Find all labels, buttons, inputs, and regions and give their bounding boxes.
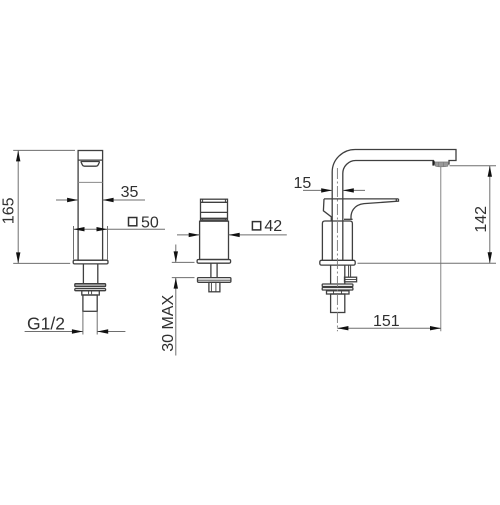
svg-text:15: 15 <box>294 175 312 192</box>
base plate <box>73 260 108 264</box>
washer <box>198 278 231 283</box>
locknut <box>82 291 100 295</box>
shank <box>82 264 84 284</box>
dimension 165 <box>13 150 75 263</box>
svg-text:35: 35 <box>121 184 139 201</box>
base plate <box>320 260 355 265</box>
dimension square-42 <box>177 234 287 236</box>
svg-text:30 MAX: 30 MAX <box>160 295 177 352</box>
svg-text:G1/2: G1/2 <box>27 313 65 333</box>
dimension 142 <box>358 166 497 263</box>
outlet centerline / extension <box>440 167 442 331</box>
svg-text:151: 151 <box>373 313 400 330</box>
svg-text:50: 50 <box>141 215 159 232</box>
cartridge collar <box>344 218 353 220</box>
threaded tail G1/2 <box>83 295 97 311</box>
base plate <box>197 260 231 264</box>
stud nut <box>345 277 357 282</box>
spout inner curve / underside <box>343 161 434 174</box>
handle notch <box>81 162 99 167</box>
threaded tail <box>209 282 220 292</box>
aerator <box>435 162 449 167</box>
washer 2 <box>322 288 353 291</box>
handle <box>201 199 228 220</box>
dimension 151 <box>337 327 441 329</box>
tap body <box>78 151 103 261</box>
dimension 30 MAX <box>172 245 195 356</box>
locknut <box>327 291 350 294</box>
svg-text:142: 142 <box>473 206 490 233</box>
svg-text:165: 165 <box>1 197 18 224</box>
faucet centerline <box>336 168 338 331</box>
riser pipe edges <box>331 172 333 260</box>
fixing stud <box>348 265 350 277</box>
body <box>200 221 229 259</box>
dimension G1/2 <box>25 311 126 334</box>
washer 1 <box>75 284 106 287</box>
top cap line <box>78 159 103 161</box>
svg-text:42: 42 <box>264 218 282 235</box>
washer 2 <box>75 289 106 291</box>
body seam line <box>78 181 103 183</box>
dimension 15 <box>303 189 365 191</box>
shank <box>330 265 332 284</box>
valve body <box>322 221 352 260</box>
threaded tail <box>331 294 345 313</box>
spout outer curve and top <box>332 149 456 172</box>
lever handle <box>324 198 399 200</box>
dimension 35 <box>56 199 145 201</box>
washer 1 <box>322 284 353 287</box>
stem <box>210 263 212 277</box>
dimension square-50 <box>74 226 166 260</box>
